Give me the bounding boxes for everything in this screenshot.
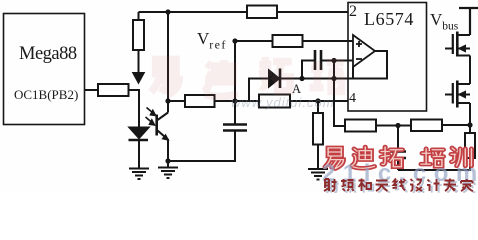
ground (LED): [129, 169, 149, 180]
arrow (down) below R1: [132, 72, 146, 85]
capacitor C2 (feedback): [302, 50, 353, 79]
transistor Q1 phototransistor: [157, 113, 169, 141]
label Vbus: [430, 10, 458, 32]
LED D1 optocoupler diode: [129, 128, 149, 169]
watermark faint ghost characters (middle band): [151, 60, 179, 96]
resistor R6 (vertical divider): [313, 101, 323, 169]
ground (emitter): [158, 161, 178, 178]
diode D2: [249, 69, 353, 102]
watermark big red char: yi: [325, 148, 343, 169]
watermark big red char: xun: [451, 148, 471, 166]
node junction top rail: [165, 9, 170, 14]
wire to LED anode: [129, 90, 140, 127]
MOSFET Q3 (low side): [445, 81, 470, 108]
node R8 rail tap: [467, 122, 472, 127]
wire Vref vertical: [234, 41, 236, 101]
wire op-amp output feedback: [353, 51, 387, 79]
label OC1B(PB2): [14, 87, 78, 103]
node A junction: [299, 76, 336, 81]
wire Vref to R5: [235, 40, 273, 42]
ground (R6): [308, 169, 328, 180]
resistor R0 (top rail): [247, 6, 277, 19]
resistor R3: [185, 95, 215, 107]
watermark faint ghost char 3: [259, 57, 292, 91]
wire to R3: [168, 100, 185, 102]
watermark big red char: di: [352, 147, 374, 168]
wire timing vertical: [334, 61, 345, 127]
wire R4 to pin 4: [290, 100, 348, 102]
label pin 2: [349, 3, 357, 21]
watermark faint www text: [231, 95, 335, 110]
node C2 tap: [331, 58, 336, 63]
node emitter junction: [165, 158, 170, 163]
wire top bus rail: [459, 8, 478, 35]
label node A: [292, 82, 301, 97]
watermark big red char: tuo: [381, 147, 402, 167]
label Mega88: [19, 44, 77, 65]
resistor R7: [345, 120, 376, 132]
watermark faint ghost char 4: [310, 61, 344, 91]
label Vref: [197, 29, 227, 52]
resistor R4: [259, 95, 290, 108]
top rail wire: [139, 11, 349, 13]
capacitor C1: [223, 101, 247, 131]
watermark big red char: pei: [421, 149, 443, 167]
resistor R5: [273, 35, 303, 47]
node Vref tap: [232, 98, 237, 103]
label pin 4: [349, 91, 356, 107]
wire OC1B output: [85, 89, 99, 91]
wire R8 to rail: [442, 124, 470, 126]
wire R3 to R4: [215, 100, 260, 102]
watermark faint ghost char 2: [204, 60, 238, 97]
optocoupler light arrows: [146, 108, 156, 126]
IC box L6574: [348, 3, 427, 112]
resistor R9 (vertical, sense): [465, 133, 475, 158]
wire half-bridge mid: [469, 56, 471, 85]
wire rail to R9: [469, 103, 471, 133]
wire R7 to R8: [376, 125, 411, 127]
label L6574: [364, 9, 414, 30]
watermark grey site text overlay: [322, 160, 478, 188]
wire R5 to op-amp + input: [303, 40, 354, 42]
watermark tagline red layer: [324, 179, 473, 192]
wire emitter down: [167, 139, 169, 161]
resistor R2 (base drive): [98, 84, 129, 96]
op-amp U1: [353, 35, 375, 67]
resistor R8: [411, 120, 442, 132]
wire bottom return rail: [168, 132, 235, 162]
node collector junction: [165, 98, 170, 103]
box MCU Mega88: [4, 14, 85, 125]
capacitor C3: [390, 126, 406, 171]
MOSFET Q2 (high side): [445, 32, 470, 57]
node C3 tap: [395, 123, 400, 128]
resistor R1 (pull-up, vertical): [133, 12, 144, 73]
wire collector vertical: [167, 12, 169, 113]
wire bottom right: [398, 158, 470, 170]
watermark tagline ghost layer: [326, 180, 475, 193]
node Vref: [232, 38, 237, 43]
node R divider tap: [315, 98, 320, 103]
